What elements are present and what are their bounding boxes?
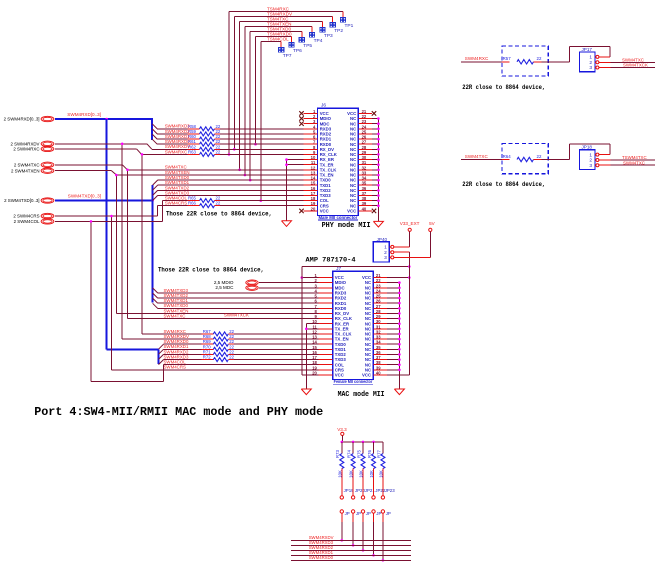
svg-text:R77: R77	[376, 450, 381, 458]
svg-text:5V: 5V	[429, 221, 436, 226]
svg-text:1: 1	[589, 55, 592, 61]
svg-text:2 SWM4RXC: 2 SWM4RXC	[13, 147, 39, 152]
svg-text:SWM4RXD0: SWM4RXD0	[309, 555, 334, 560]
svg-text:TP2: TP2	[334, 28, 343, 34]
svg-text:JP: JP	[356, 511, 361, 516]
svg-text:PHY mode MII: PHY mode MII	[322, 222, 371, 230]
svg-text:R57: R57	[503, 56, 512, 61]
svg-text:22R close to 8864 device,: 22R close to 8864 device,	[462, 84, 545, 91]
svg-text:VCC: VCC	[335, 373, 344, 378]
svg-text:3: 3	[589, 65, 592, 71]
svg-text:1: 1	[384, 245, 387, 251]
svg-text:SWM4CRS: SWM4CRS	[165, 201, 188, 206]
svg-text:SWM4RXC: SWM4RXC	[465, 56, 489, 61]
svg-text:VCC: VCC	[362, 373, 371, 378]
svg-text:2: 2	[589, 60, 592, 66]
svg-text:2 SWM4RXD[0..3]: 2 SWM4RXD[0..3]	[4, 117, 40, 122]
svg-text:R64: R64	[503, 154, 512, 159]
svg-text:R74: R74	[347, 450, 352, 458]
svg-text:TP7: TP7	[283, 53, 292, 59]
svg-text:V33_EXT: V33_EXT	[400, 221, 420, 226]
svg-text:SWM4RXC: SWM4RXC	[165, 149, 187, 154]
svg-text:SWM4TXC: SWM4TXC	[465, 154, 489, 159]
svg-text:22: 22	[229, 355, 234, 360]
svg-text:2,5 MDC: 2,5 MDC	[215, 285, 234, 290]
svg-text:2 SWM4TXEN: 2 SWM4TXEN	[11, 168, 40, 173]
svg-text:2 SWM4TXD[0..3]: 2 SWM4TXD[0..3]	[4, 198, 39, 203]
svg-text:10K: 10K	[379, 470, 384, 478]
svg-text:Female MII connector: Female MII connector	[334, 379, 373, 384]
svg-text:10K: 10K	[369, 470, 374, 478]
svg-text:R73: R73	[335, 450, 340, 458]
svg-text:22: 22	[229, 329, 234, 334]
svg-text:10K: 10K	[337, 470, 342, 478]
svg-text:3: 3	[589, 163, 592, 169]
svg-text:R66: R66	[188, 201, 196, 206]
svg-text:SWM4TXD[0..3]: SWM4TXD[0..3]	[68, 194, 101, 199]
svg-text:SWM4TXC: SWM4TXC	[623, 160, 645, 165]
svg-text:SWM4TXC: SWM4TXC	[164, 313, 186, 318]
svg-text:JP: JP	[345, 511, 350, 516]
svg-text:2: 2	[384, 250, 387, 256]
svg-text:3: 3	[384, 255, 387, 261]
svg-text:22: 22	[216, 149, 221, 154]
svg-text:JP17: JP17	[582, 47, 593, 52]
svg-text:2 SWM4CRS: 2 SWM4CRS	[13, 214, 39, 219]
svg-text:MAC mode MII: MAC mode MII	[338, 391, 385, 399]
svg-text:TSWM4TXC: TSWM4TXC	[622, 155, 647, 160]
svg-text:22: 22	[216, 201, 221, 206]
svg-text:TP3: TP3	[324, 33, 333, 39]
svg-text:TP1: TP1	[345, 23, 354, 29]
svg-text:SWM4RXD[0..3]: SWM4RXD[0..3]	[67, 112, 101, 117]
svg-text:10K: 10K	[359, 470, 364, 478]
svg-text:2 SWM4TXC: 2 SWM4TXC	[14, 162, 40, 167]
svg-text:TP5: TP5	[303, 43, 312, 49]
svg-text:JP23: JP23	[385, 488, 396, 493]
svg-text:22: 22	[537, 154, 542, 159]
svg-text:22R close to 8864 device,: 22R close to 8864 device,	[462, 181, 545, 188]
svg-text:20: 20	[311, 206, 316, 211]
svg-text:VCC: VCC	[320, 209, 329, 214]
svg-text:VCC: VCC	[347, 209, 356, 214]
svg-text:TP4: TP4	[314, 38, 323, 44]
svg-text:SWM4COL: SWM4COL	[164, 360, 187, 365]
svg-text:1: 1	[589, 152, 592, 158]
svg-text:JP: JP	[386, 511, 391, 516]
svg-text:R75: R75	[356, 450, 361, 458]
svg-text:22: 22	[537, 56, 542, 61]
svg-text:Those 22R close to 8864 device: Those 22R close to 8864 device,	[158, 267, 264, 274]
svg-text:R72: R72	[203, 355, 211, 360]
svg-text:JP40: JP40	[377, 237, 388, 242]
svg-text:TSM4COL: TSM4COL	[267, 36, 289, 41]
svg-text:TP6: TP6	[293, 48, 302, 54]
svg-text:R63: R63	[188, 149, 196, 154]
svg-text:SWM4TXC: SWM4TXC	[622, 57, 644, 62]
svg-text:SWM4TXCK: SWM4TXCK	[623, 63, 648, 68]
svg-text:JP18: JP18	[582, 145, 593, 150]
svg-text:SWM4CRS: SWM4CRS	[164, 365, 187, 370]
svg-text:Port 4:SW4-MII/RMII MAC mode a: Port 4:SW4-MII/RMII MAC mode and PHY mod…	[34, 405, 323, 419]
svg-text:AMP 787170-4: AMP 787170-4	[306, 256, 356, 263]
svg-text:JP19: JP19	[344, 488, 355, 493]
svg-text:R76: R76	[367, 450, 372, 458]
svg-text:Male MII connector: Male MII connector	[318, 215, 357, 220]
svg-text:J6: J6	[321, 103, 326, 109]
svg-text:R67: R67	[203, 329, 211, 334]
svg-text:10K: 10K	[349, 470, 354, 478]
svg-text:V3.3: V3.3	[337, 427, 347, 432]
svg-text:JP: JP	[366, 511, 371, 516]
svg-text:Those 22R close to 8864 device: Those 22R close to 8864 device,	[166, 211, 272, 218]
svg-text:2 SWM4COL: 2 SWM4COL	[14, 219, 40, 224]
svg-text:2: 2	[589, 158, 592, 164]
svg-text:SWM4RXC: SWM4RXC	[164, 329, 186, 334]
svg-text:SWM4TXCK: SWM4TXCK	[224, 312, 249, 317]
